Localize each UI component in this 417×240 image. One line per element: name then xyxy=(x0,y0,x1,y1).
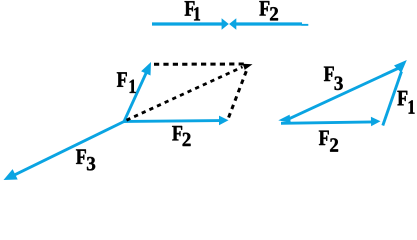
dashed parallelogram right side xyxy=(229,69,248,118)
vector F1 (triangle diagram, up) xyxy=(383,60,407,126)
vector F1 (top, pointing right) xyxy=(152,18,229,29)
label F3 (triangle) xyxy=(324,67,343,90)
vector F3 (equilibrant, down-left) xyxy=(4,122,125,181)
label F1 (parallelogram) xyxy=(117,72,136,93)
label F2 (triangle) xyxy=(319,131,338,152)
vector F2 (parallelogram diagram) xyxy=(124,116,229,126)
label F2 (parallelogram) xyxy=(172,126,190,146)
label F1 (top) xyxy=(185,1,200,20)
dashed parallelogram top side xyxy=(154,63,246,66)
vector F2 (triangle diagram, pointing right) xyxy=(281,117,381,127)
vector F1 (parallelogram diagram) xyxy=(124,62,151,122)
dashed resultant diagonal xyxy=(127,67,243,120)
vector F2 (top, pointing left) xyxy=(229,18,308,29)
label F2 (top) xyxy=(259,1,278,20)
label F1 (triangle) xyxy=(397,91,414,114)
vector F3 (triangle diagram, down-left) xyxy=(278,67,401,123)
resultant arrowhead xyxy=(243,64,253,70)
label F3 (parallelogram) xyxy=(76,149,95,170)
